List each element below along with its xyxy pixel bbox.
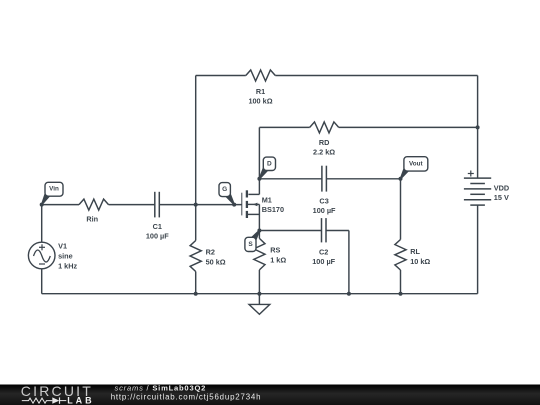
svg-text:scrams / SimLab03Q2: scrams / SimLab03Q2 bbox=[115, 383, 207, 392]
svg-text:50 kΩ: 50 kΩ bbox=[206, 258, 226, 267]
svg-text:G: G bbox=[222, 186, 227, 193]
svg-text:D: D bbox=[267, 160, 272, 167]
svg-text:100 µF: 100 µF bbox=[146, 232, 169, 241]
svg-text:R1: R1 bbox=[256, 87, 265, 96]
svg-text:100 µF: 100 µF bbox=[312, 257, 335, 266]
svg-text:BS170: BS170 bbox=[262, 205, 284, 214]
svg-text:V1: V1 bbox=[58, 242, 67, 251]
svg-text:1 kΩ: 1 kΩ bbox=[270, 256, 286, 265]
svg-text:Rin: Rin bbox=[86, 215, 98, 224]
svg-text:RD: RD bbox=[319, 138, 330, 147]
svg-text:LAB: LAB bbox=[67, 395, 95, 405]
svg-text:15 V: 15 V bbox=[494, 193, 509, 202]
svg-text:10 kΩ: 10 kΩ bbox=[410, 257, 430, 266]
svg-text:Vout: Vout bbox=[409, 160, 423, 167]
svg-text:VDD: VDD bbox=[494, 183, 509, 192]
svg-text:C3: C3 bbox=[319, 197, 328, 206]
svg-text:sine: sine bbox=[58, 252, 73, 261]
svg-text:100 µF: 100 µF bbox=[313, 206, 336, 215]
svg-text:100 kΩ: 100 kΩ bbox=[248, 97, 272, 106]
svg-text:S: S bbox=[248, 241, 253, 248]
svg-text:Vin: Vin bbox=[49, 186, 59, 193]
svg-text:1 kHz: 1 kHz bbox=[58, 262, 77, 271]
svg-text:2.2 kΩ: 2.2 kΩ bbox=[313, 148, 335, 157]
svg-text:http://circuitlab.com/ctj56dup: http://circuitlab.com/ctj56dup2734h bbox=[111, 393, 262, 402]
svg-text:RS: RS bbox=[270, 246, 280, 255]
svg-text:M1: M1 bbox=[262, 195, 272, 204]
svg-text:C1: C1 bbox=[153, 222, 162, 231]
svg-text:C2: C2 bbox=[319, 247, 328, 256]
svg-text:RL: RL bbox=[410, 247, 420, 256]
svg-text:R2: R2 bbox=[206, 248, 215, 257]
